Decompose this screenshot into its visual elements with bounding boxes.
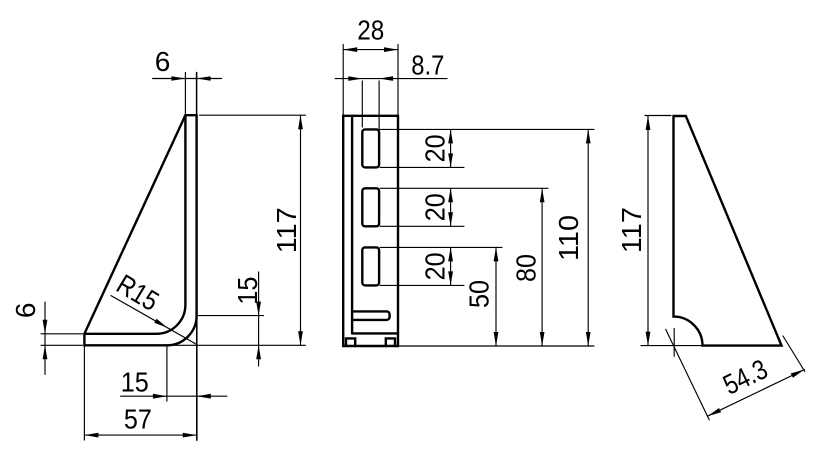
svg-text:117: 117: [271, 207, 302, 253]
svg-text:28: 28: [357, 15, 384, 46]
svg-text:6: 6: [155, 46, 171, 77]
svg-text:110: 110: [553, 215, 584, 261]
svg-text:20: 20: [420, 252, 451, 280]
svg-text:57: 57: [124, 404, 152, 435]
svg-text:50: 50: [464, 280, 495, 308]
svg-text:80: 80: [511, 254, 542, 282]
svg-text:6: 6: [10, 303, 41, 319]
svg-text:20: 20: [420, 134, 451, 162]
svg-text:15: 15: [232, 277, 263, 305]
svg-text:8.7: 8.7: [411, 50, 444, 81]
svg-text:15: 15: [121, 367, 149, 398]
svg-text:117: 117: [616, 207, 647, 253]
svg-text:20: 20: [420, 193, 451, 221]
